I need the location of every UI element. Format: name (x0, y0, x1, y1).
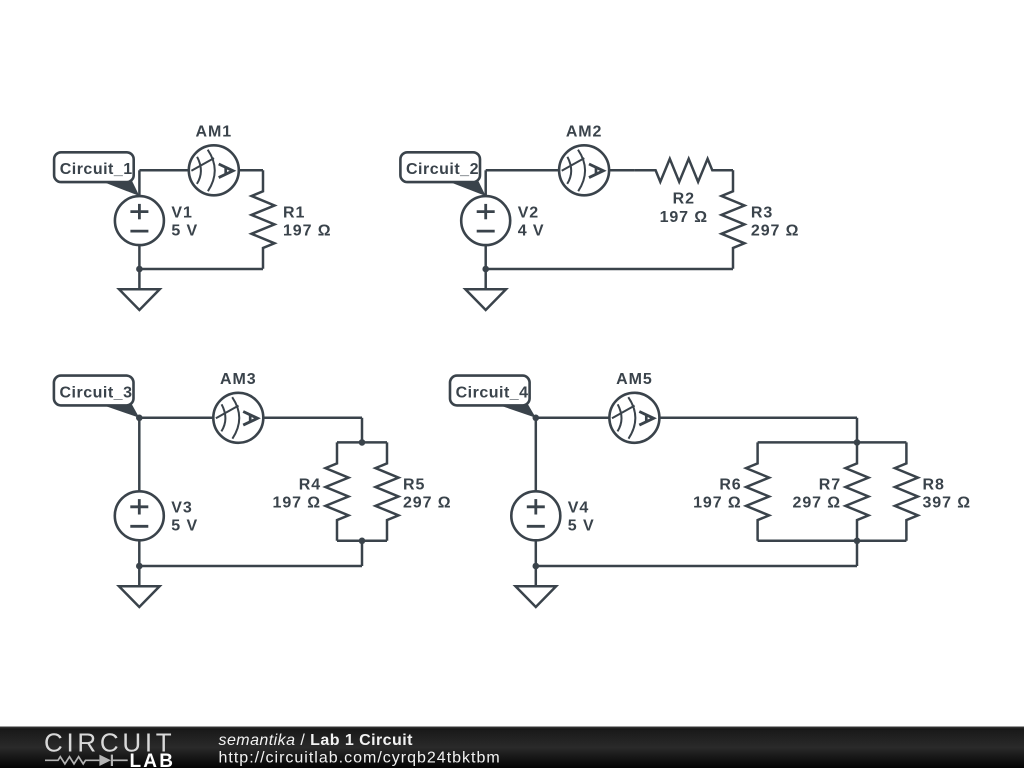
svg-text:semantika / Lab 1 Circuit: semantika / Lab 1 Circuit (219, 732, 414, 749)
wire (263, 417, 362, 420)
wire (484, 170, 487, 196)
wire (239, 169, 263, 172)
svg-text:197 Ω: 197 Ω (660, 209, 708, 226)
svg-text:197 Ω: 197 Ω (273, 495, 321, 512)
wire (609, 169, 635, 172)
wire (361, 541, 364, 566)
svg-text:5 V: 5 V (171, 223, 198, 240)
node junction dot (854, 439, 861, 446)
svg-text:Circuit_1: Circuit_1 (60, 161, 133, 178)
svg-text:LAB: LAB (130, 751, 176, 768)
wire (659, 417, 857, 420)
svg-text:Circuit_3: Circuit_3 (60, 385, 133, 402)
svg-text:V2: V2 (518, 205, 539, 222)
svg-text:197 Ω: 197 Ω (693, 495, 741, 512)
ground (465, 269, 506, 310)
ground (516, 566, 557, 607)
svg-text:197 Ω: 197 Ω (283, 223, 331, 240)
svg-text:V1: V1 (171, 205, 192, 222)
wire (139, 417, 213, 420)
wire (856, 541, 859, 566)
svg-text:AM5: AM5 (616, 371, 652, 388)
wire (535, 540, 538, 566)
svg-text:297 Ω: 297 Ω (751, 223, 799, 240)
svg-text:Circuit_2: Circuit_2 (406, 161, 479, 178)
resistor R8 (895, 442, 918, 540)
resistor R2 (635, 159, 733, 182)
svg-text:R5: R5 (403, 477, 425, 494)
node junction dot (359, 538, 366, 545)
svg-text:http://circuitlab.com/cyrqb24t: http://circuitlab.com/cyrqb24tbktbm (219, 749, 501, 766)
node junction dot (136, 266, 143, 273)
svg-text:5 V: 5 V (568, 518, 595, 535)
ground (119, 566, 160, 607)
svg-text:AM3: AM3 (220, 371, 256, 388)
voltage source V2 (461, 196, 510, 245)
wire (484, 245, 487, 269)
svg-text:R1: R1 (283, 205, 305, 222)
svg-text:R6: R6 (719, 477, 741, 494)
wire (139, 169, 188, 172)
wire (856, 418, 859, 443)
logo resistor squiggle (45, 757, 99, 764)
resistor R5 (376, 442, 399, 540)
svg-text:Circuit_4: Circuit_4 (456, 385, 529, 402)
voltage source V1 (115, 196, 164, 245)
wire (486, 268, 733, 271)
svg-text:R8: R8 (923, 477, 945, 494)
net label tag Circuit_2 (400, 152, 485, 196)
wire (138, 418, 141, 492)
svg-text:V4: V4 (568, 500, 589, 517)
svg-text:R7: R7 (819, 477, 841, 494)
ammeter AM1 (189, 145, 239, 195)
wire (758, 540, 907, 543)
svg-text:297 Ω: 297 Ω (403, 495, 451, 512)
resistor R7 (846, 442, 869, 540)
node junction dot (533, 415, 540, 422)
svg-text:AM2: AM2 (566, 124, 602, 141)
node junction dot (136, 563, 143, 570)
svg-text:V3: V3 (171, 500, 192, 517)
svg-text:4 V: 4 V (518, 223, 545, 240)
wire (535, 418, 538, 492)
node junction dot (533, 563, 540, 570)
net label tag Circuit_1 (54, 152, 139, 196)
node junction dot (482, 266, 489, 273)
wire (138, 245, 141, 269)
ammeter AM2 (559, 145, 609, 195)
net label tag Circuit_3 (54, 376, 139, 418)
wire (758, 441, 907, 444)
wire (139, 565, 362, 568)
wire (361, 418, 364, 443)
wire (536, 417, 610, 420)
svg-text:397 Ω: 397 Ω (923, 495, 971, 512)
svg-text:5 V: 5 V (171, 518, 198, 535)
resistor R3 (722, 170, 745, 268)
wire (486, 169, 559, 172)
svg-text:R2: R2 (673, 191, 695, 208)
ammeter AM3 (213, 393, 263, 443)
logo diode (99, 755, 111, 766)
svg-text:R4: R4 (299, 477, 321, 494)
svg-text:297 Ω: 297 Ω (793, 495, 841, 512)
net label tag Circuit_4 (450, 376, 536, 418)
wire (138, 540, 141, 566)
ground (119, 269, 160, 310)
wire (732, 169, 735, 172)
wire (139, 268, 263, 271)
resistor R1 (252, 170, 275, 268)
resistor R6 (746, 442, 769, 540)
svg-text:AM1: AM1 (196, 124, 232, 141)
wire (536, 565, 857, 568)
resistor R4 (326, 442, 349, 540)
voltage source V4 (511, 491, 560, 540)
node junction dot (854, 538, 861, 545)
svg-text:R3: R3 (751, 205, 773, 222)
wire (337, 441, 387, 444)
ammeter AM5 (609, 393, 659, 443)
node junction dot (136, 415, 143, 422)
wire (138, 170, 141, 196)
wire (337, 540, 387, 543)
voltage source V3 (115, 491, 164, 540)
node junction dot (359, 439, 366, 446)
